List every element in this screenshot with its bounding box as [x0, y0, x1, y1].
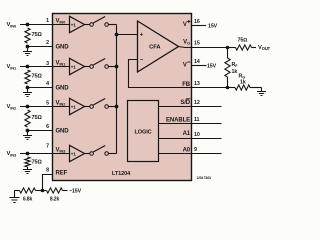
wire logic control line	[159, 153, 222, 155]
svg-text:6.8k: 6.8k	[23, 196, 33, 202]
node junction dot VIN0	[26, 23, 30, 27]
svg-text:1k: 1k	[240, 80, 246, 86]
wire switch 1 output	[108, 66, 116, 68]
wire VIN3 input to buffer	[20, 153, 70, 155]
op-amp CFA output amplifier	[138, 21, 179, 72]
svg-text:1k: 1k	[232, 69, 238, 75]
wire logic control line	[159, 123, 222, 125]
svg-text:VIN3: VIN3	[7, 151, 18, 157]
node junction dot gnd 1	[26, 86, 30, 90]
svg-text:7: 7	[46, 144, 49, 150]
node junction dot bus to CFA+	[115, 33, 119, 37]
svg-text:FB: FB	[182, 82, 191, 88]
svg-text:1: 1	[46, 18, 49, 24]
svg-text:8: 8	[46, 168, 49, 174]
svg-text:+1: +1	[71, 64, 77, 70]
svg-text:GND: GND	[56, 129, 70, 135]
resistor RF feedback 1k	[227, 48, 229, 59]
svg-text:GND: GND	[56, 45, 70, 51]
svg-text:ENABLE: ENABLE	[166, 117, 190, 123]
svg-text:3: 3	[46, 61, 49, 67]
node junction dot bus row3	[115, 105, 119, 109]
svg-text:75Ω: 75Ω	[238, 38, 248, 44]
wire VIN1 input to buffer	[20, 66, 70, 68]
ground symbol channel 2	[27, 131, 29, 136]
node junction dot gnd 2	[26, 129, 30, 133]
buffer amplifier +1 channel 2	[70, 98, 85, 114]
svg-text:12: 12	[194, 100, 200, 106]
svg-text:REF: REF	[56, 171, 68, 177]
wire switch 0 output	[108, 24, 116, 26]
svg-text:LOGIC: LOGIC	[134, 130, 151, 136]
svg-text:−15V: −15V	[204, 64, 217, 70]
svg-text:S/D: S/D	[180, 100, 190, 106]
svg-text:4: 4	[46, 81, 49, 87]
node junction dot gnd 0	[26, 45, 30, 49]
ground symbol REF divider	[14, 191, 16, 198]
switch S1	[85, 66, 90, 68]
svg-text:VIN0: VIN0	[56, 19, 67, 25]
svg-text:1204 TA01: 1204 TA01	[197, 176, 212, 180]
node junction dot VIN2	[26, 105, 30, 109]
wire to GND pin 2	[28, 46, 53, 48]
op-amp IC U1 LT1204 body	[53, 14, 192, 181]
svg-text:V: V	[183, 22, 187, 28]
ground symbol channel 3	[27, 167, 29, 170]
svg-text:VIN3: VIN3	[56, 148, 67, 154]
svg-text:6: 6	[46, 124, 49, 130]
node junction dot bus row2	[115, 65, 119, 69]
wire CFA output to pin 15	[179, 47, 228, 48]
svg-text:8.2k: 8.2k	[50, 196, 60, 202]
svg-text:GND: GND	[56, 86, 70, 92]
resistor 75 ohm termination VIN0	[25, 28, 30, 43]
resistor 75 ohm output series	[228, 47, 236, 49]
svg-text:+1: +1	[71, 104, 77, 110]
svg-text:VO: VO	[183, 40, 190, 46]
svg-text:75Ω: 75Ω	[32, 74, 43, 80]
svg-text:14: 14	[194, 59, 200, 65]
svg-text:15: 15	[194, 41, 200, 47]
wire to GND pin 4	[28, 87, 53, 89]
wire bus to CFA + input	[117, 34, 138, 36]
svg-text:−15V: −15V	[69, 189, 82, 195]
wire CFA inverting input to FB pin 13	[129, 60, 228, 88]
ground symbol RG	[261, 88, 263, 92]
svg-text:VIN1: VIN1	[7, 64, 18, 70]
wire common mux output bus	[116, 25, 118, 154]
svg-text:75Ω: 75Ω	[32, 115, 43, 121]
svg-text:LT1204: LT1204	[112, 171, 131, 177]
switch S0	[85, 24, 90, 26]
switch S3	[85, 153, 90, 155]
node junction dot output	[226, 46, 230, 50]
svg-text:11: 11	[194, 117, 200, 123]
svg-text:A0: A0	[183, 147, 191, 153]
wire logic control line	[159, 138, 222, 140]
buffer amplifier +1 channel 3	[70, 145, 85, 161]
wire VIN2 input to buffer	[20, 106, 70, 108]
svg-text:75Ω: 75Ω	[32, 159, 43, 165]
svg-text:16: 16	[194, 19, 200, 25]
svg-text:VIN0: VIN0	[7, 22, 18, 28]
svg-text:A1: A1	[183, 131, 191, 137]
svg-text:VIN2: VIN2	[7, 104, 18, 110]
svg-text:13: 13	[194, 81, 200, 87]
ground symbol channel 1	[27, 88, 29, 93]
svg-text:+1: +1	[71, 22, 77, 28]
node junction dot VIN1	[26, 65, 30, 69]
svg-text:VIN1: VIN1	[56, 61, 67, 67]
buffer amplifier +1 channel 0	[70, 16, 85, 32]
wire pin14 V- supply	[192, 65, 207, 67]
svg-text:15V: 15V	[208, 24, 218, 30]
node junction dot REF divider	[41, 189, 45, 193]
svg-text:VOUT: VOUT	[258, 45, 271, 51]
wire logic control line	[159, 106, 222, 108]
resistor 75 ohm termination VIN2	[25, 110, 30, 127]
logic block	[128, 101, 159, 162]
svg-text:10: 10	[194, 132, 200, 138]
svg-text:V: V	[183, 63, 187, 69]
buffer amplifier +1 channel 1	[70, 58, 85, 74]
resistor 75 ohm termination VIN3	[25, 157, 30, 167]
svg-text:VIN2: VIN2	[56, 101, 67, 107]
node junction dot FB	[226, 86, 230, 90]
wire to GND pin 6	[28, 130, 53, 132]
resistor RG gain 1k	[228, 87, 236, 89]
node junction dot VIN3	[26, 152, 30, 156]
svg-text:+1: +1	[71, 151, 77, 157]
svg-text:9: 9	[194, 147, 197, 153]
resistor 8.2k	[43, 190, 47, 192]
wire pin8 REF stub	[43, 175, 53, 191]
wire switch 2 output	[108, 106, 116, 108]
resistor 75 ohm termination VIN1	[25, 70, 30, 84]
svg-text:CFA: CFA	[149, 44, 161, 50]
svg-text:2: 2	[46, 40, 49, 46]
wire pin16 V+ supply	[192, 25, 207, 27]
wire VIN0 input to buffer	[20, 24, 70, 26]
svg-text:75Ω: 75Ω	[32, 32, 43, 38]
switch S2	[85, 106, 90, 108]
wire switch 3 output	[108, 153, 116, 155]
svg-text:5: 5	[46, 101, 49, 107]
ground symbol channel 0	[27, 47, 29, 52]
resistor 6.8k	[15, 190, 20, 192]
